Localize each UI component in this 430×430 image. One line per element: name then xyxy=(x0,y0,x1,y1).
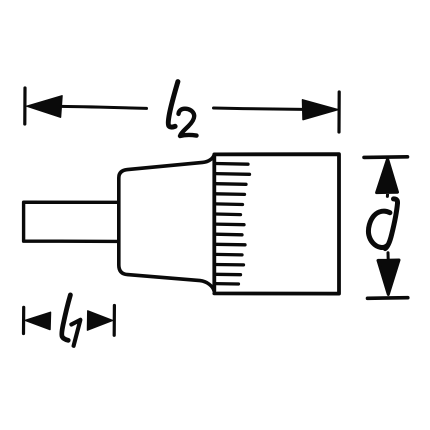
knurl line 8 xyxy=(216,233,243,237)
knurl line 4 xyxy=(216,192,245,196)
label d xyxy=(368,199,397,249)
dimension l2: left arrowhead xyxy=(27,96,62,117)
knurl line 10 xyxy=(216,253,243,257)
knurl line 7 xyxy=(216,222,245,226)
dimension d: top extension tick xyxy=(364,155,408,159)
dimension l2: right extension tick xyxy=(337,92,340,132)
dimension l2: right arrowhead xyxy=(303,100,338,120)
label l1 xyxy=(62,295,81,346)
socket hex shaft outline xyxy=(24,202,119,241)
knurl line 6 xyxy=(216,212,241,216)
dimension l2: left extension tick xyxy=(23,88,26,124)
dimension l1: right extension tick xyxy=(113,306,116,336)
dimension l1: left arrowhead xyxy=(26,312,51,329)
knurl line 1 xyxy=(216,162,249,166)
knurl line 5 xyxy=(216,202,243,206)
label l2 xyxy=(168,82,196,136)
dimension l2: line right segment xyxy=(214,108,303,109)
knurl line 13 xyxy=(216,282,239,286)
knurl line 12 xyxy=(216,273,241,277)
dimension d: bottom arrowhead xyxy=(378,253,399,295)
dimension l1: left extension tick xyxy=(22,307,25,333)
knurl line 2 xyxy=(216,172,250,176)
socket tapered body outline xyxy=(119,155,214,291)
dimension l2: line left segment xyxy=(60,106,147,108)
dimension l1: right arrowhead xyxy=(88,311,113,330)
socket cylinder outline xyxy=(214,154,339,293)
dimension d: top arrowhead xyxy=(377,159,398,196)
knurl line 9 xyxy=(216,243,246,247)
knurl line 11 xyxy=(216,263,244,267)
knurl line 3 xyxy=(216,182,247,186)
dimension d: bottom extension tick xyxy=(368,296,408,300)
